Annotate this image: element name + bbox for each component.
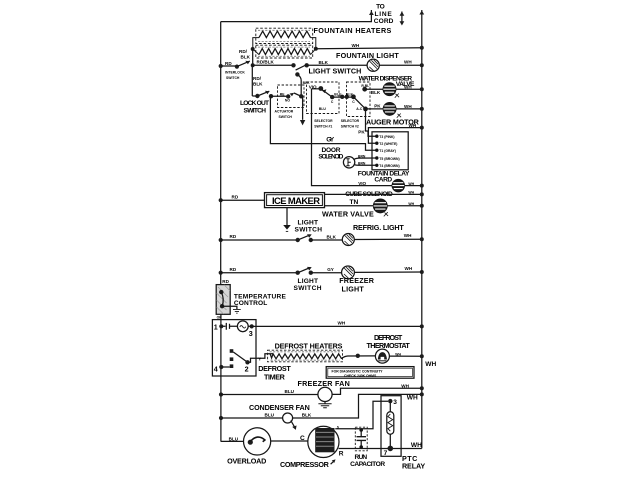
- node RD label freezer rail: [230, 267, 237, 272]
- timer defrost timer box: [212, 320, 256, 376]
- junction refrig rail: [219, 238, 223, 242]
- svg-text:FREEZER FAN: FREEZER FAN: [298, 379, 351, 388]
- node water dispenser valve label: [359, 76, 415, 89]
- svg-text:RD/: RD/: [239, 49, 248, 54]
- svg-text:ICE MAKER: ICE MAKER: [272, 195, 320, 206]
- node WH label timer rail: [338, 321, 346, 326]
- wire BLU freezer fan rail: [221, 394, 318, 396]
- wire PK from selector to T3: [366, 109, 377, 136]
- node C label compressor: [300, 435, 305, 442]
- svg-text:C: C: [300, 435, 305, 442]
- node Y label: [258, 356, 261, 361]
- svg-text:FOUNTAIN HEATERS: FOUNTAIN HEATERS: [314, 26, 392, 35]
- node R-BL tiny label: [361, 84, 369, 88]
- heater F2 fountain heater lower: [253, 45, 316, 58]
- module fountain delay card box: [372, 132, 408, 170]
- node RD label refrig: [230, 234, 237, 239]
- svg-text:LIGHT: LIGHT: [342, 285, 365, 294]
- svg-text:WH: WH: [352, 43, 360, 48]
- svg-text:SWITCH: SWITCH: [226, 76, 240, 80]
- wire RD refrig rail: [221, 239, 298, 241]
- node compressor pointer arrow: [331, 459, 336, 464]
- wire to water dispenser valve: [365, 88, 384, 90]
- wire compressor S to run capacitor and PTC: [335, 401, 388, 428]
- lamp fountain light: [367, 59, 379, 71]
- node WH label refrig: [404, 233, 412, 238]
- node light switch label: [309, 67, 362, 76]
- node freezer fan label: [298, 379, 351, 388]
- wire timer WH rail to bus: [252, 324, 424, 328]
- pin 3 label PTC: [393, 399, 397, 406]
- node PTC relay label: [402, 454, 425, 471]
- node WH label PTC bottom: [411, 442, 422, 449]
- svg-text:LINE: LINE: [375, 11, 393, 18]
- svg-text:BLU: BLU: [229, 437, 239, 442]
- switch freezer light switch: [296, 267, 313, 275]
- node condenser fan label: [249, 403, 310, 412]
- svg-text:INTERLOCK: INTERLOCK: [225, 70, 245, 74]
- node TN label: [350, 199, 359, 206]
- node refrig light label: [353, 223, 404, 232]
- svg-text:RD: RD: [222, 279, 229, 284]
- svg-text:WH: WH: [338, 321, 346, 326]
- node water valve label: [322, 209, 374, 218]
- switch refrig light switch: [296, 234, 313, 242]
- svg-text:WH: WH: [401, 383, 409, 388]
- pin T3 PINK: [375, 135, 394, 140]
- switch actuator switch: [278, 85, 305, 108]
- wire top rail to line cord: [221, 10, 374, 22]
- pin 4 label: [214, 364, 218, 373]
- switch light switch pole 1: [291, 63, 309, 70]
- node actuator switch label: [275, 110, 294, 120]
- junction ice maker feed: [219, 198, 223, 202]
- node BLK label condenser: [302, 413, 312, 418]
- node WH label freezer fan: [401, 383, 409, 388]
- node defrost timer label: [258, 364, 291, 381]
- svg-text:3: 3: [249, 329, 253, 338]
- node freezer light label: [339, 276, 375, 293]
- svg-text:WH: WH: [411, 442, 422, 449]
- svg-text:SELECTOR: SELECTOR: [341, 119, 360, 123]
- node BLK label sel2b: [346, 93, 354, 97]
- svg-text:CONDENSER FAN: CONDENSER FAN: [249, 403, 310, 412]
- wire BLU condenser fan rail: [221, 417, 283, 419]
- svg-text:RD: RD: [230, 267, 237, 272]
- node cube solenoid label: [345, 191, 393, 198]
- svg-text:GY: GY: [326, 137, 335, 144]
- node fountain heaters label: [314, 26, 392, 35]
- junction water dispenser tap: [362, 87, 367, 92]
- resistor PTC element: [387, 401, 394, 448]
- switch light switch pole 2 wire: [295, 72, 301, 96]
- pin T5 BROWN: [375, 156, 400, 161]
- node GY label: [326, 137, 335, 144]
- node auger motor label: [366, 118, 420, 127]
- solenoid water dispenser valve: [383, 83, 396, 96]
- svg-text:WATER VALVE: WATER VALVE: [322, 209, 374, 218]
- node light switch label refrig: [295, 220, 323, 234]
- junction freezer fan rail: [219, 392, 223, 396]
- lamp refrig light: [342, 234, 354, 246]
- node x mark below auger: [397, 114, 401, 118]
- svg-text:WH: WH: [409, 123, 417, 128]
- svg-text:CHECK 240K OHMS: CHECK 240K OHMS: [344, 374, 377, 378]
- svg-text:BLK: BLK: [253, 82, 263, 87]
- thermostat temperature control: [216, 285, 230, 315]
- node interlock switch label: [225, 70, 245, 80]
- node VIO label: [309, 85, 317, 90]
- wire left supply bus: [220, 22, 222, 442]
- svg-text:FOR DIAGNOSTIC CONTINUITY: FOR DIAGNOSTIC CONTINUITY: [332, 370, 384, 374]
- wire heater output WH to right bus: [316, 46, 424, 50]
- svg-text:BLK: BLK: [346, 93, 354, 97]
- node RE label: [280, 92, 285, 96]
- svg-text:SWITCH #1: SWITCH #1: [314, 124, 332, 128]
- node WH label heater rail: [352, 43, 360, 48]
- svg-text:LIGHT: LIGHT: [298, 278, 319, 285]
- wire door solenoid to T4: [354, 164, 377, 167]
- node compressor label: [280, 460, 330, 469]
- wire ice maker WH to bus: [325, 192, 424, 196]
- svg-text:RD/: RD/: [253, 76, 262, 81]
- wire thermostat WH to bus: [389, 354, 423, 358]
- svg-text:WH: WH: [407, 395, 418, 402]
- svg-text:T3 (PINK): T3 (PINK): [379, 135, 394, 139]
- node run capacitor label: [350, 454, 385, 468]
- node S label compressor: [337, 425, 340, 429]
- node RD label ice maker: [232, 194, 239, 199]
- wire auger WH to bus: [396, 107, 424, 111]
- svg-text:VIO: VIO: [358, 181, 366, 186]
- svg-text:RD: RD: [232, 194, 239, 199]
- wire heater to thermostat: [341, 356, 375, 359]
- node BLK label valve: [371, 90, 381, 95]
- junction timer terminal 3: [248, 324, 254, 328]
- wire bus corner to overload: [221, 440, 244, 442]
- svg-text:TN: TN: [350, 199, 359, 206]
- pin T4 BROWN: [375, 164, 400, 169]
- svg-text:WH: WH: [404, 233, 412, 238]
- svg-text:RE: RE: [280, 92, 285, 96]
- node A-C label: [356, 107, 363, 111]
- node WH label valve: [404, 84, 412, 89]
- node WH tiny label thermostat: [395, 352, 401, 356]
- wire BLK rail to fountain light: [307, 64, 368, 66]
- node BLU label condenser: [265, 413, 275, 418]
- node light switch label freezer: [294, 278, 322, 292]
- node PK label auger: [374, 103, 381, 108]
- solenoid water valve: [374, 199, 388, 213]
- svg-text:PK: PK: [374, 103, 381, 108]
- svg-text:C: C: [331, 100, 334, 104]
- svg-text:4: 4: [214, 364, 218, 373]
- wire condenser fan BLK WH to bus: [293, 392, 424, 418]
- svg-text:TO: TO: [376, 4, 385, 11]
- svg-text:Y: Y: [258, 356, 261, 361]
- wire compressor R rail to PTC 7 and bus: [339, 448, 422, 450]
- node RD label temp: [222, 279, 229, 284]
- svg-text:SWITCH: SWITCH: [244, 107, 267, 114]
- wire PK to auger motor: [366, 108, 384, 110]
- switch interlock: [219, 61, 250, 69]
- wire RD/BLK rail to light switch: [253, 64, 294, 66]
- svg-text:T1 (GRAY): T1 (GRAY): [379, 149, 396, 153]
- pin 1 label: [214, 322, 218, 331]
- svg-text:R.BL: R.BL: [361, 84, 369, 88]
- thermostat defrost thermostat: [375, 349, 389, 363]
- svg-text:WH: WH: [404, 84, 412, 89]
- protector overload: [244, 428, 271, 455]
- heater defrost heaters: [268, 350, 343, 362]
- node BLU label sel2a: [334, 93, 342, 97]
- module ice maker box: [265, 193, 325, 208]
- capacitor run capacitor: [355, 427, 367, 451]
- node WH label water valve: [408, 202, 414, 206]
- node WH label auger: [404, 104, 412, 109]
- pin T1 GRAY: [375, 149, 396, 154]
- wire TN to water valve: [325, 205, 374, 207]
- node RD label interlock: [225, 61, 232, 66]
- wire GY to freezer light: [311, 272, 342, 274]
- svg-text:SWITCH: SWITCH: [279, 115, 293, 119]
- wire fountain light WH to bus: [379, 63, 424, 67]
- solenoid door solenoid: [343, 157, 354, 168]
- pin 2 label: [245, 364, 249, 373]
- svg-text:RD/BLK: RD/BLK: [257, 60, 275, 65]
- svg-text:T2 (WHITE): T2 (WHITE): [379, 142, 397, 146]
- node WH label T2: [409, 123, 417, 128]
- junction heater left: [251, 47, 255, 51]
- wire GY from lockout to T1: [270, 96, 376, 150]
- junction PTC terminal 7: [388, 446, 394, 452]
- wire BLK to refrig light: [311, 239, 343, 241]
- node ice maker label: [272, 195, 320, 206]
- svg-text:WH: WH: [404, 60, 412, 65]
- node RD/BLK rail label: [257, 60, 275, 65]
- node defrost heaters label: [275, 342, 343, 351]
- svg-text:DEFROST HEATERS: DEFROST HEATERS: [275, 342, 343, 351]
- junction PTC terminal 3: [388, 399, 392, 403]
- svg-text:7: 7: [384, 450, 388, 457]
- node RD/BLK label stack: [239, 49, 251, 60]
- node NO label: [285, 99, 290, 103]
- node BRN label T5: [358, 154, 366, 158]
- node x mark below valve: [395, 94, 399, 98]
- wire door solenoid to T5: [354, 158, 377, 159]
- node selector switch 2 label: [341, 119, 360, 129]
- node fountain light label: [336, 51, 399, 60]
- relay PTC box: [381, 396, 401, 457]
- svg-text:WH: WH: [408, 202, 414, 206]
- node PK label card: [358, 129, 365, 134]
- svg-text:BLU: BLU: [285, 389, 295, 394]
- node BLU label sel1: [319, 107, 327, 111]
- svg-text:BLK: BLK: [302, 413, 312, 418]
- svg-text:BLK: BLK: [241, 54, 251, 59]
- node C label sel1: [331, 100, 334, 104]
- node WH label right of bus: [425, 361, 436, 368]
- svg-text:OVERLOAD: OVERLOAD: [227, 456, 266, 465]
- switch timer cam contacts: [221, 349, 249, 368]
- svg-text:SOLENOID: SOLENOID: [318, 154, 343, 161]
- wire T2 WH to bus: [368, 126, 423, 144]
- node BLK label: [319, 60, 329, 65]
- svg-text:WH: WH: [408, 190, 414, 194]
- svg-text:REFRIG. LIGHT: REFRIG. LIGHT: [353, 223, 404, 232]
- svg-text:LOCK OUT: LOCK OUT: [240, 100, 269, 107]
- wire water valve WH to bus: [387, 204, 424, 208]
- wire RD freezer rail: [221, 272, 298, 274]
- node BLU label overload: [229, 437, 239, 442]
- wire freezer light WH to bus: [354, 270, 423, 274]
- node BLK label refrig: [327, 235, 337, 240]
- svg-text:1: 1: [214, 322, 218, 331]
- lamp freezer light: [342, 266, 355, 279]
- node WH label cube: [408, 182, 414, 186]
- wire down arrow below actuator junction: [300, 96, 305, 125]
- wire Y from terminal 2 to defrost heater: [248, 354, 274, 363]
- node fountain delay card label: [358, 170, 410, 183]
- svg-text:WH: WH: [404, 104, 412, 109]
- svg-text:PK: PK: [358, 129, 365, 134]
- node temperature control label: [234, 293, 287, 307]
- junction timer terminal 4: [219, 365, 223, 369]
- svg-text:BLU: BLU: [319, 107, 327, 111]
- node WH label fountain light: [404, 60, 412, 65]
- svg-text:RD: RD: [225, 61, 232, 66]
- node C label sel2: [352, 100, 355, 104]
- motor freezer fan: [318, 387, 332, 401]
- svg-text:BLK: BLK: [319, 60, 329, 65]
- node TO LINE CORD label: [374, 4, 394, 26]
- wire line cord double arrow: [400, 12, 405, 26]
- svg-text:VIO: VIO: [309, 85, 317, 90]
- svg-text:T4 (BROWN): T4 (BROWN): [379, 164, 399, 168]
- svg-text:BLU: BLU: [265, 413, 275, 418]
- ground freezer fan: [318, 402, 331, 408]
- svg-text:BLK: BLK: [371, 90, 381, 95]
- svg-text:CORD: CORD: [374, 18, 394, 25]
- svg-text:BLU: BLU: [334, 93, 342, 97]
- junction timer terminal 1: [219, 324, 223, 328]
- node GY label freezer: [327, 267, 334, 272]
- svg-text:CARD: CARD: [374, 176, 392, 183]
- node WH label PTC top: [407, 395, 418, 402]
- motor compressor: [308, 426, 339, 457]
- ground temperature control: [222, 306, 241, 313]
- ground ice maker: [283, 208, 291, 232]
- wire overload to compressor C: [271, 440, 308, 442]
- svg-text:BRN: BRN: [358, 154, 366, 158]
- wire VIO from selector 1 down to cube solenoid rail: [312, 89, 393, 186]
- pin 7 label PTC: [384, 450, 388, 457]
- note diagnostic continuity box: [326, 367, 414, 379]
- switch selector switch 2: [332, 82, 370, 117]
- svg-text:2: 2: [245, 364, 249, 373]
- junction RD/BLK on light rail: [251, 63, 255, 67]
- pin 3 label: [249, 329, 253, 338]
- solenoid cube solenoid: [392, 180, 404, 192]
- pin T2 WHITE: [375, 142, 397, 147]
- node overload label: [227, 456, 266, 465]
- node OR label: [217, 316, 223, 320]
- wire cube solenoid WH to bus: [404, 184, 423, 188]
- svg-text:CONTROL: CONTROL: [234, 300, 267, 307]
- switch lock out switch: [252, 65, 288, 98]
- svg-text:WH: WH: [405, 266, 413, 271]
- node BLK tiny label pole2: [303, 81, 311, 85]
- heater F1 fountain heater upper: [253, 28, 316, 48]
- svg-text:NO: NO: [285, 99, 290, 103]
- wire valve WH to bus: [396, 87, 424, 91]
- motor auger motor: [383, 103, 396, 116]
- svg-text:SWITCH #2: SWITCH #2: [341, 124, 359, 128]
- svg-text:BRN: BRN: [358, 162, 366, 166]
- wire freezer fan WH to bus: [332, 386, 424, 394]
- node x mark below water valve: [384, 212, 388, 216]
- svg-text:A-C: A-C: [356, 107, 363, 111]
- node defrost thermostat label: [367, 333, 411, 350]
- svg-text:R: R: [339, 451, 344, 458]
- switch selector switch 1: [307, 82, 340, 114]
- svg-text:LIGHT: LIGHT: [298, 220, 319, 227]
- svg-text:FOUNTAIN LIGHT: FOUNTAIN LIGHT: [336, 51, 399, 60]
- svg-text:C: C: [352, 100, 355, 104]
- svg-text:COMPRESSOR: COMPRESSOR: [280, 460, 330, 469]
- svg-text:SWITCH: SWITCH: [295, 227, 323, 234]
- svg-text:RD: RD: [230, 234, 237, 239]
- svg-text:TIMER: TIMER: [264, 372, 286, 381]
- node BRN label T4: [358, 162, 366, 166]
- timer motor symbol: [221, 321, 248, 332]
- motor condenser fan: [283, 413, 293, 423]
- junction heater thermostat: [356, 354, 360, 358]
- svg-text:WH: WH: [408, 182, 414, 186]
- node WH label freezer light: [405, 266, 413, 271]
- svg-text:GY: GY: [327, 267, 334, 272]
- svg-text:CAPACITOR: CAPACITOR: [350, 461, 385, 468]
- svg-text:ACTUATOR: ACTUATOR: [275, 110, 294, 114]
- svg-text:THERMOSTAT: THERMOSTAT: [367, 341, 411, 350]
- ground condenser fan arrow: [291, 421, 297, 430]
- svg-text:T5 (BROWN): T5 (BROWN): [379, 157, 399, 161]
- svg-text:LIGHT SWITCH: LIGHT SWITCH: [309, 67, 362, 76]
- node selector switch 1 label: [314, 119, 333, 129]
- svg-text:SWITCH: SWITCH: [294, 285, 322, 292]
- wire refrig light WH to bus: [354, 237, 424, 241]
- node WH label ice maker: [408, 190, 414, 194]
- node R label compressor: [339, 451, 344, 458]
- wire right neutral bus: [419, 10, 424, 448]
- svg-text:BLK: BLK: [327, 235, 337, 240]
- node BLU label freezer fan: [285, 389, 295, 394]
- svg-text:WH: WH: [425, 361, 436, 368]
- svg-text:SELECTOR: SELECTOR: [314, 119, 333, 123]
- node door solenoid label: [318, 147, 343, 161]
- wire RD to ice maker: [221, 199, 264, 201]
- junction condenser fan rail: [219, 416, 223, 420]
- junction freezer rail: [219, 271, 223, 275]
- node RD/BLK label lockout: [253, 76, 263, 87]
- svg-text:RELAY: RELAY: [402, 462, 425, 471]
- junction heater right: [314, 47, 318, 51]
- node lock out switch label: [240, 100, 269, 114]
- wire RD/BLK drop from heaters to light rail: [252, 49, 254, 65]
- svg-text:3: 3: [393, 399, 397, 406]
- node VIO label cube: [358, 181, 366, 186]
